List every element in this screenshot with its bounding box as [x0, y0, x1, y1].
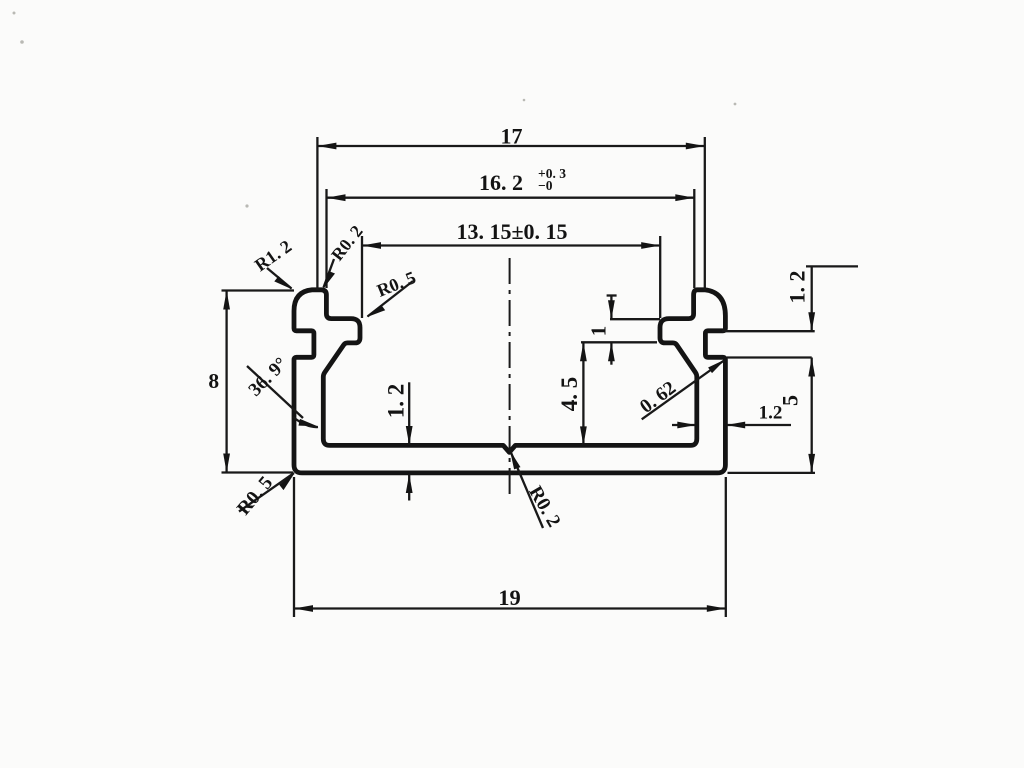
svg-text:13. 15±0. 15: 13. 15±0. 15 — [456, 219, 567, 244]
arrowhead leader 36.9 — [299, 419, 318, 426]
dim 5: dimension line — [811, 358, 813, 473]
arrowheads dim 4.5 — [580, 342, 587, 361]
dim 13.15: extension lines — [361, 236, 363, 318]
dim 1.2 base: lower dimension line — [408, 474, 410, 501]
svg-text:17: 17 — [501, 124, 523, 149]
arrowheads dim 13.15 — [362, 242, 381, 249]
dim 17: dimension line — [317, 145, 704, 147]
dim 1.2 base: upper dimension line — [408, 382, 410, 445]
leader R0.2 top — [324, 259, 335, 288]
svg-text:36. 9°: 36. 9° — [245, 354, 292, 401]
svg-text:1. 2: 1. 2 — [785, 271, 810, 304]
leader R0.5 top — [368, 281, 414, 317]
svg-text:1. 2: 1. 2 — [384, 384, 409, 419]
dim 19: extension lines — [293, 477, 295, 617]
svg-text:−0: −0 — [538, 178, 553, 193]
arrowheads dim 5 — [808, 358, 815, 377]
right notch extension line (bump underside) — [722, 330, 815, 332]
arrowhead dim 1.2 top right (down) — [808, 312, 815, 331]
centerline (vertical dash-dot axis) — [509, 258, 511, 500]
dim 4.5: extension line (lip bottom) — [581, 341, 657, 343]
arrowheads dim 19 — [294, 605, 313, 612]
svg-text:4. 5: 4. 5 — [557, 377, 582, 412]
arrowheads dim 1.2 wall — [677, 422, 696, 429]
arrowhead leader R0.2 bottom — [510, 451, 521, 470]
arrowhead leader R1.2 — [274, 276, 292, 289]
dim 19: dimension line — [294, 607, 726, 609]
svg-text:1: 1 — [587, 326, 611, 337]
leader R0.2 bottom center — [511, 452, 544, 529]
arrowhead leader R0.5 bottom — [279, 473, 294, 490]
svg-text:0. 62: 0. 62 — [636, 377, 680, 417]
dim 1: extension line (hook top) — [610, 318, 660, 320]
dim 1: lower dimension line — [610, 342, 612, 364]
dim 13.15: dimension line — [362, 244, 660, 246]
leader 0.62 — [642, 361, 724, 420]
arrowheads dim 8 — [223, 291, 230, 310]
dim 1.2 top right: dimension line and top tick — [811, 266, 813, 331]
profile outline (aluminium channel cross-section) — [294, 290, 725, 473]
arrowheads dim 1.2 base — [406, 426, 413, 445]
dim 8: extension lines — [222, 289, 295, 291]
leader R0.5 bottom left — [239, 473, 294, 512]
svg-text:19: 19 — [498, 585, 521, 610]
svg-text:1.2: 1.2 — [759, 403, 783, 424]
dim 8: dimension line — [225, 291, 227, 473]
arrowhead leader R0.5 top — [367, 305, 386, 318]
dim 1: upper dimension line with top tick — [610, 295, 612, 320]
svg-text:8: 8 — [208, 369, 219, 393]
arrowheads dim 1 — [608, 300, 615, 319]
base bottom extension to the right — [728, 472, 816, 474]
svg-text:R0. 2: R0. 2 — [327, 221, 367, 264]
dim 16.2: extension lines — [325, 189, 327, 288]
arrowhead leader R0.2 top — [323, 271, 335, 289]
arrowheads dim 17 — [317, 143, 336, 150]
svg-text:R1. 2: R1. 2 — [251, 236, 295, 275]
arrowheads dim 16.2 — [327, 194, 346, 201]
leader R1.2 — [267, 268, 292, 289]
dim 17: extension lines — [316, 137, 318, 290]
svg-text:R0. 2: R0. 2 — [524, 483, 564, 531]
dim 1.2 wall: left arrow tail — [672, 424, 695, 426]
dim 1.2 wall: right arrow tail — [727, 424, 791, 426]
faint scan specks — [13, 12, 737, 208]
dim 4.5: dimension line — [582, 342, 584, 445]
right notch extension line (step bottom) — [727, 356, 812, 358]
leader 36.9 with angle arc — [247, 366, 303, 418]
svg-text:16. 2: 16. 2 — [479, 170, 523, 195]
svg-text:R0. 5: R0. 5 — [233, 472, 277, 519]
arrowhead leader 0.62 — [708, 359, 725, 373]
svg-text:R0. 5: R0. 5 — [374, 267, 419, 301]
dim 16.2: dimension line — [327, 197, 695, 199]
